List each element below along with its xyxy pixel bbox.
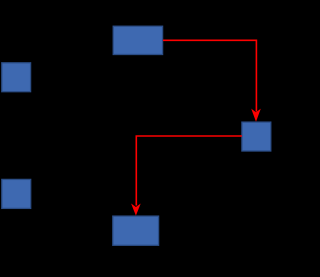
- box left lower square: [2, 179, 31, 208]
- box left upper square: [2, 63, 31, 92]
- connector elbow from right square to bottom rectangle: [136, 136, 242, 206]
- box right square: [242, 122, 271, 151]
- connector elbow from top rectangle to right square: [163, 40, 257, 111]
- box top rectangle: [113, 26, 162, 54]
- arrowhead into bottom rectangle top: [131, 204, 141, 216]
- arrowhead into right square top: [251, 109, 261, 122]
- box bottom rectangle: [113, 216, 159, 245]
